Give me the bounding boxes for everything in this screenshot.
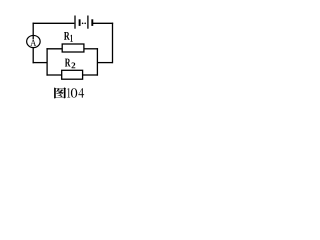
ammeter A1 circle: [27, 35, 41, 47]
label R2: subscript 2: [72, 63, 76, 69]
caption: character 图: [54, 87, 66, 98]
wire: ammeter to left bus: [33, 62, 48, 64]
wire: R2 right lead: [83, 74, 98, 76]
ammeter letter A: [30, 39, 36, 46]
wire: R1 left lead: [46, 48, 62, 50]
label R2: letter R: [65, 59, 71, 67]
wire: right bus: [96, 48, 98, 76]
wire: top-right segment: [93, 22, 113, 24]
wire: R1 right lead: [84, 48, 98, 50]
wire: left vertical into ammeter: [32, 23, 34, 39]
caption: digit 1: [67, 88, 70, 97]
wire: right connector to bus: [97, 62, 112, 64]
label R1: letter R: [64, 32, 70, 40]
resistor R1 box: [62, 44, 84, 52]
wire: top-left segment: [33, 22, 75, 24]
caption: digit 0: [71, 88, 77, 97]
wire: right vertical: [112, 23, 114, 64]
caption: digit 4: [79, 88, 85, 97]
wire: left bus: [46, 48, 48, 76]
battery long plate 2: [87, 16, 89, 29]
resistor R2 box: [62, 70, 83, 79]
battery short plate 2: [91, 19, 93, 26]
battery dot 2: [84, 23, 86, 25]
battery long plate 1: [74, 16, 76, 29]
wire: R2 left lead: [46, 74, 61, 76]
battery dot 1: [82, 23, 84, 25]
label R1: subscript 1: [70, 35, 72, 42]
wire: below ammeter: [32, 47, 34, 63]
battery short plate 1: [79, 19, 81, 26]
